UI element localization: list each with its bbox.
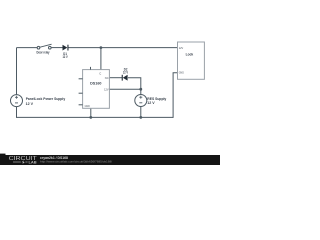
pin label NC bbox=[105, 76, 109, 80]
node junction top rail to IC bbox=[100, 46, 103, 49]
pin stub left 3 bbox=[79, 104, 83, 106]
label Door relay bbox=[37, 51, 50, 55]
svg-text:NC: NC bbox=[105, 76, 109, 80]
voltage source V1 PanelLock Power Supply bbox=[11, 95, 23, 107]
footer watermark bar bbox=[0, 154, 220, 165]
node junction 12V pin to RES bbox=[139, 88, 142, 91]
svg-text:GND: GND bbox=[179, 71, 184, 75]
wire top rail right segment bbox=[69, 47, 178, 49]
svg-text:PanelLock Power Supply: PanelLock Power Supply bbox=[26, 97, 66, 101]
svg-text:C: C bbox=[99, 71, 101, 75]
wire IC 12V pin bbox=[109, 88, 140, 90]
voltage source V2 RES Supply bbox=[135, 95, 147, 107]
pin label C bbox=[99, 71, 101, 75]
svg-text:12V: 12V bbox=[179, 46, 184, 50]
wire left vertical lower bbox=[16, 107, 18, 118]
wire NC pin to D2 bbox=[109, 77, 122, 79]
pin label 12V bbox=[104, 87, 109, 91]
svg-text:http://www.circuitlab.com/circ: http://www.circuitlab.com/circuit/3db656… bbox=[40, 159, 112, 163]
Lock box bbox=[178, 42, 205, 79]
label RES Supply bbox=[147, 97, 166, 105]
wire left vertical bbox=[16, 48, 18, 95]
wire D2 to right vertical down bbox=[128, 78, 141, 95]
svg-text:Lock: Lock bbox=[186, 52, 194, 57]
IC U1 DS160 box bbox=[83, 70, 110, 109]
svg-text:GND: GND bbox=[85, 104, 90, 108]
label PanelLock Power Supply bbox=[26, 97, 66, 106]
node junction IC gnd bottom rail bbox=[89, 116, 92, 119]
pin stub left 1 bbox=[79, 78, 83, 80]
svg-text:DS160: DS160 bbox=[90, 81, 102, 86]
wire IC gnd pin down bbox=[90, 108, 92, 117]
label D1 value bbox=[63, 52, 69, 59]
wire lock gnd bbox=[173, 73, 177, 118]
diode D2 bbox=[122, 75, 128, 81]
diode D1 bbox=[63, 45, 69, 51]
pin stub top unconnected bbox=[90, 67, 92, 70]
svg-text:12 V: 12 V bbox=[147, 101, 155, 105]
svg-text:12 V: 12 V bbox=[123, 71, 129, 75]
wire top rail left segment bbox=[17, 47, 38, 49]
pin stub left 2 bbox=[79, 92, 83, 94]
wire bottom rail bbox=[17, 116, 174, 118]
wire RES supply bottom bbox=[140, 107, 142, 118]
svg-text:12 V: 12 V bbox=[63, 55, 69, 59]
pin label Lock 12V bbox=[179, 46, 184, 50]
switch SW1 Door relay bbox=[37, 44, 51, 49]
pin label GND bbox=[85, 104, 90, 108]
wire IC top pin C bbox=[100, 48, 102, 70]
svg-text:12 V: 12 V bbox=[26, 102, 34, 106]
label D2 value bbox=[123, 67, 129, 74]
svg-text:12V: 12V bbox=[104, 87, 109, 91]
pin label Lock GND bbox=[179, 71, 184, 75]
svg-text:Door relay: Door relay bbox=[37, 51, 50, 55]
wire top rail middle segment bbox=[51, 47, 62, 49]
node junction RES bottom rail bbox=[139, 116, 142, 119]
svg-text:LAB: LAB bbox=[29, 160, 38, 164]
